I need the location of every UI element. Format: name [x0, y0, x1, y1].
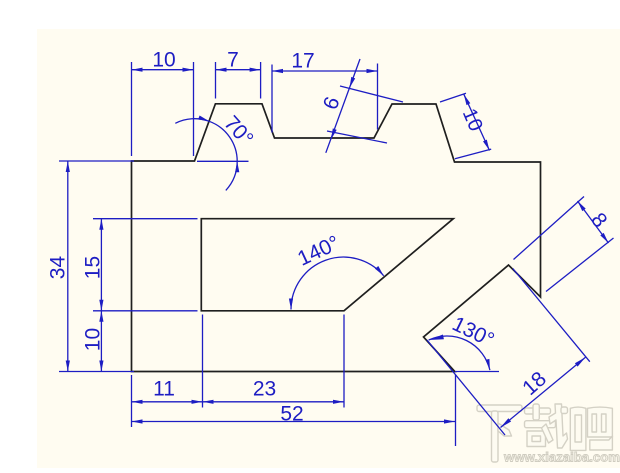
svg-text:10: 10	[81, 328, 104, 351]
svg-text:www.xiazaiba.com: www.xiazaiba.com	[503, 450, 620, 465]
svg-text:11: 11	[153, 378, 175, 401]
svg-text:7: 7	[227, 48, 239, 71]
dimension 17	[272, 50, 378, 133]
part body outline	[132, 104, 541, 372]
dimension 10 top-left with extension lines	[132, 48, 194, 156]
svg-text:34: 34	[46, 256, 69, 280]
dimension 10 slanted right notch	[440, 93, 491, 158]
angle dimension 140 deg	[289, 231, 384, 309]
dimension 15	[81, 219, 197, 311]
dimension 18 notch edge	[427, 269, 590, 436]
dimension 34 left height	[46, 161, 134, 372]
dimension 11 bottom	[132, 315, 203, 428]
dimension 6 slanted	[319, 59, 403, 153]
svg-text:23: 23	[253, 378, 276, 401]
svg-text:52: 52	[280, 402, 303, 425]
svg-text:15: 15	[81, 256, 104, 279]
watermark xiazaiba	[477, 404, 620, 465]
svg-text:17: 17	[291, 50, 314, 73]
dimension 23 bottom	[203, 315, 345, 408]
angle dimension 130 deg	[429, 312, 499, 371]
svg-text:10: 10	[152, 48, 175, 71]
dimension 52 bottom overall	[132, 375, 456, 447]
inner parallelogram cutout	[201, 219, 453, 311]
dimension 8 notch	[514, 197, 614, 292]
dimension 7 notch top	[216, 48, 261, 98]
dimension 10 left lower	[81, 311, 104, 372]
angle dimension 70 deg	[175, 112, 257, 191]
